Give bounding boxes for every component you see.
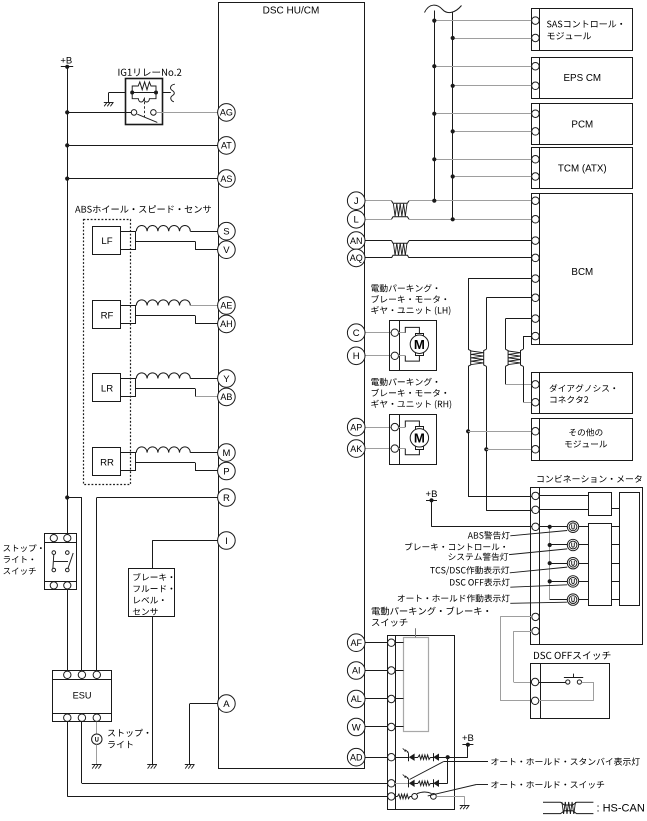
svg-text:AF: AF <box>350 638 362 648</box>
svg-text:Y: Y <box>223 374 230 385</box>
svg-text:LR: LR <box>101 383 113 394</box>
svg-text:W: W <box>352 722 361 733</box>
svg-text:R: R <box>223 493 230 504</box>
svg-text:+B: +B <box>60 56 72 67</box>
svg-text:AI: AI <box>352 666 361 676</box>
svg-text:AT: AT <box>221 141 232 151</box>
svg-text:P: P <box>223 466 229 477</box>
svg-text:AG: AG <box>220 108 233 118</box>
svg-text:I: I <box>225 536 228 547</box>
svg-text:AE: AE <box>220 301 232 311</box>
svg-text:M: M <box>414 337 425 352</box>
svg-text:M: M <box>414 431 425 446</box>
svg-text:LF: LF <box>101 236 112 247</box>
svg-text:TCM (ATX): TCM (ATX) <box>558 163 607 174</box>
svg-text:H: H <box>353 351 360 362</box>
svg-text:M: M <box>222 448 230 459</box>
svg-text:AH: AH <box>220 319 233 329</box>
svg-text:AN: AN <box>350 236 363 246</box>
svg-text:RR: RR <box>100 458 114 469</box>
svg-text:+B: +B <box>462 733 474 744</box>
svg-text:PCM: PCM <box>571 120 593 131</box>
svg-text:J: J <box>354 196 359 207</box>
svg-text:AB: AB <box>220 392 232 402</box>
svg-text:BCM: BCM <box>571 267 593 278</box>
svg-text:V: V <box>223 245 230 256</box>
svg-text:L: L <box>354 215 359 226</box>
svg-text:AP: AP <box>350 422 362 432</box>
svg-text:A: A <box>223 699 230 710</box>
svg-text:+B: +B <box>426 489 438 500</box>
svg-text:DSC HU/CM: DSC HU/CM <box>263 6 320 17</box>
svg-text:AQ: AQ <box>350 253 363 263</box>
svg-text:AD: AD <box>350 752 363 762</box>
svg-text:C: C <box>353 328 360 339</box>
svg-text:S: S <box>223 227 229 238</box>
svg-text:AS: AS <box>220 174 232 184</box>
svg-text:EPS CM: EPS CM <box>564 73 602 84</box>
svg-text:RF: RF <box>101 310 114 321</box>
svg-text:AK: AK <box>350 444 362 454</box>
svg-text:: HS-CAN: : HS-CAN <box>597 803 645 815</box>
svg-text:AL: AL <box>351 694 362 704</box>
svg-text:ESU: ESU <box>73 691 92 701</box>
